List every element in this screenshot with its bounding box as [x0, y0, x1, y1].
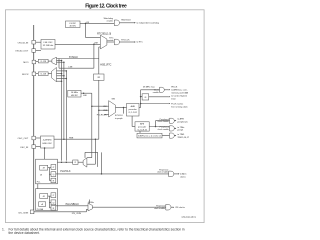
wire HSI corner	[91, 93, 93, 158]
divider /32 box	[94, 74, 105, 80]
mux MCO	[52, 57, 57, 65]
AHB prescaler box	[127, 104, 140, 117]
PLL2 wiring	[48, 195, 51, 197]
bus v4	[65, 71, 67, 161]
node HSE bus	[63, 138, 65, 140]
wire HSE to SW mux	[99, 109, 109, 111]
svg-text:to RTC: to RTC	[137, 41, 144, 44]
svg-text:MCO: MCO	[23, 62, 28, 64]
tap mux2 a	[57, 70, 67, 72]
svg-text:to Cortex System: to Cortex System	[171, 95, 187, 98]
wire x1x2 out	[162, 135, 170, 137]
svg-text:to ADC: to ADC	[180, 173, 187, 176]
svg-text:timer: timer	[171, 98, 176, 101]
mux RTCSEL	[100, 35, 107, 49]
wire HSE riser lower	[98, 80, 100, 139]
wire corner b	[87, 163, 96, 165]
wire PLL1 to PLL2	[37, 184, 39, 189]
svg-text:HSI: HSI	[83, 95, 87, 97]
PLL1 box Q	[51, 172, 56, 177]
arrow I2S	[173, 207, 174, 208]
svg-text:/1,2,4,8,16: /1,2,4,8,16	[137, 130, 147, 132]
tap mux2 d	[57, 78, 67, 80]
svg-text:4-48 MHz: 4-48 MHz	[43, 139, 52, 141]
svg-text:LSE: LSE	[94, 42, 99, 44]
svg-text:prescaler: prescaler	[129, 109, 138, 111]
wire postdiv mux	[78, 161, 83, 163]
svg-text:clocks: clocks	[180, 177, 186, 179]
tap mux2 b	[57, 73, 62, 75]
svg-text:PLLUSBCLK: PLLUSBCLK	[66, 204, 80, 206]
tap mux1 c	[57, 61, 64, 63]
tim multiplier box	[137, 133, 162, 138]
node HSI	[83, 92, 85, 94]
svg-text:SYSCLK: SYSCLK	[69, 57, 79, 59]
bus v3	[63, 62, 65, 139]
wire FCLK	[141, 103, 169, 105]
wire corner d	[101, 152, 103, 174]
node HSE pll	[44, 147, 46, 149]
svg-text:LSE OSC: LSE OSC	[43, 42, 53, 44]
wire HSE	[54, 138, 99, 140]
pin OSC_OUT	[32, 136, 36, 140]
wire RTC mux out	[107, 41, 114, 43]
svg-text:FCLK Cortex: FCLK Cortex	[171, 103, 184, 106]
svg-text:32.768 kHz: 32.768 kHz	[43, 45, 54, 47]
svg-text:48 MHz: 48 MHz	[88, 202, 94, 204]
and gate I2S	[166, 204, 171, 210]
svg-text:LSE: LSE	[69, 66, 74, 68]
wire div8 out	[149, 96, 169, 98]
node SYSCLK	[123, 107, 125, 109]
divider MCO2 box	[38, 72, 48, 76]
APB prescaler box	[135, 122, 149, 131]
svg-text:/1,2../512: /1,2../512	[129, 112, 138, 114]
arrow fHCLK	[169, 89, 170, 90]
bus v2	[61, 60, 63, 160]
svg-text:HSI RC: HSI RC	[71, 95, 79, 97]
wire HCLK to gate	[141, 89, 160, 91]
svg-text:MCO2: MCO2	[22, 74, 29, 76]
wire PCLK out	[149, 126, 169, 128]
node LSI branch	[85, 23, 87, 25]
svg-text:HSE OSC: HSE OSC	[43, 143, 53, 145]
svg-text:clock enable: clock enable	[157, 172, 169, 174]
wire mux hook	[84, 152, 86, 158]
wire SYSCLK out	[116, 107, 127, 109]
tap mux2 c	[57, 75, 64, 77]
figure frame	[6, 10, 205, 223]
mux MCO2	[52, 67, 57, 81]
wire PLLUSBCLK	[56, 205, 88, 207]
pin MCO2	[32, 72, 36, 76]
svg-text:peripherals: peripherals	[177, 120, 187, 123]
svg-text:/1..128: /1..128	[40, 74, 46, 76]
svg-text:HSI: HSI	[103, 106, 107, 108]
and gate TIM1	[170, 133, 175, 138]
wire fHCLK	[164, 89, 168, 91]
pin OSC_IN	[32, 145, 36, 149]
svg-text:fHCLK: fHCLK	[171, 86, 178, 88]
wire PLLRCLK in	[104, 113, 109, 115]
LSI RC oscillator box	[66, 21, 81, 28]
wire SYSCLK down	[123, 108, 125, 114]
PLL2 input box	[40, 194, 48, 199]
wire PLL out upper	[57, 161, 72, 163]
pin OSC32_IN	[32, 40, 36, 44]
svg-text:RTCSEL[1:0]: RTCSEL[1:0]	[97, 33, 111, 36]
mux I2S	[88, 203, 92, 211]
wire IWDGCLK	[120, 22, 135, 24]
divider MCO box	[38, 59, 48, 63]
svg-text:enable: enable	[107, 40, 114, 42]
svg-text:enable: enable	[153, 92, 160, 94]
PLL block 1	[36, 159, 58, 184]
svg-text:PLLRCLK: PLLRCLK	[97, 114, 107, 116]
arrow FCLK	[169, 103, 170, 104]
mux SW	[109, 101, 116, 117]
arrow to RTC	[134, 41, 135, 42]
svg-text:40 kHz: 40 kHz	[69, 25, 75, 27]
svg-text:to periph: to periph	[115, 117, 123, 120]
svg-text:LSI: LSI	[86, 22, 90, 24]
PLL1 input box	[40, 165, 48, 170]
wire I2S_CKIN	[34, 211, 87, 213]
wire corner c	[94, 139, 96, 164]
wire corner a	[87, 157, 92, 159]
svg-text:xN: xN	[40, 174, 43, 176]
wire HSI to SW mux	[92, 105, 109, 107]
svg-text:to APB: to APB	[177, 118, 184, 121]
pin MCO	[32, 60, 36, 64]
arrow systick	[169, 96, 170, 97]
wire I2S out	[92, 206, 165, 208]
arrow TIM	[175, 128, 176, 129]
svg-text:if (APB presc = 1) x1 else x2: if (APB presc = 1) x1 else x2	[138, 135, 161, 138]
wire HSI out	[81, 92, 92, 94]
svg-text:HSE_RTC: HSE_RTC	[100, 63, 111, 66]
svg-text:HSE: HSE	[103, 110, 108, 112]
svg-text:MSv62148V1: MSv62148V1	[182, 216, 197, 219]
svg-text:Figure 12. Clock tree: Figure 12. Clock tree	[85, 3, 127, 9]
svg-text:I2S_CKIN: I2S_CKIN	[72, 213, 82, 215]
mux TIM1 sel	[83, 158, 87, 167]
svg-text:PLLPCLK: PLLPCLK	[60, 171, 71, 173]
and gate RTC	[114, 39, 119, 45]
svg-text:PLL: PLL	[37, 182, 41, 184]
svg-text:PLLSAI: PLLSAI	[37, 208, 44, 211]
and gate ADC	[169, 171, 174, 177]
svg-text:to TIMx: to TIMx	[177, 126, 185, 129]
PLL1 wiring	[48, 167, 51, 169]
tap mux1 b	[57, 59, 62, 61]
svg-text:SW: SW	[112, 99, 115, 101]
chip boundary bus	[33, 25, 35, 214]
svg-text:prescaler: prescaler	[138, 127, 147, 129]
wire RTCCLK	[120, 41, 135, 43]
svg-text:I2S clocks: I2S clocks	[175, 207, 184, 209]
wire mux2-div	[48, 73, 51, 75]
svg-text:OSC32_IN: OSC32_IN	[18, 42, 29, 44]
wire MCO pin-div	[36, 61, 38, 63]
svg-text:16 MHz: 16 MHz	[71, 92, 78, 94]
svg-text:free running clock: free running clock	[171, 105, 188, 108]
node pll v2	[61, 161, 63, 163]
and gate IWDG	[114, 20, 119, 26]
svg-text:the device datasheet.: the device datasheet.	[9, 231, 40, 235]
node HSI to SW	[91, 105, 93, 107]
arrow APB periph	[175, 120, 176, 121]
and gate APB periph	[170, 118, 175, 123]
svg-text:1.: 1.	[2, 228, 5, 232]
and gate TIM	[170, 126, 175, 131]
PLL2 box R	[51, 206, 56, 211]
svg-text:48 MHz max: 48 MHz max	[143, 86, 156, 88]
post divider box	[73, 160, 78, 164]
svg-text:/1..128: /1..128	[40, 61, 46, 63]
wire PLLPCLK	[56, 173, 169, 175]
svg-text:APB: APB	[140, 123, 145, 126]
wire SYSCLK top	[57, 58, 99, 60]
PLL2 box P	[51, 193, 56, 198]
arrow TIM1	[175, 135, 176, 136]
LSE oscillator box	[41, 40, 55, 50]
pin I2S_CKIN	[30, 210, 34, 214]
svg-text:IWDGCLK: IWDGCLK	[121, 19, 131, 21]
HSI RC box	[68, 90, 81, 97]
PLL1 box P	[51, 165, 56, 170]
PLL2 lower box	[39, 202, 46, 207]
svg-text:HSE: HSE	[69, 137, 74, 139]
and gate AHB	[160, 87, 165, 92]
svg-text:OSC_IN: OSC_IN	[20, 147, 29, 149]
wire HSE to PLL	[44, 148, 46, 159]
svg-text:AHB: AHB	[131, 105, 136, 108]
svg-text:enable: enable	[107, 20, 114, 22]
svg-text:OSC_OUT: OSC_OUT	[18, 138, 29, 140]
node HSE to SW mux	[98, 109, 100, 111]
wire HSE_RTC into mux	[99, 46, 101, 48]
svg-text:/2: /2	[75, 162, 77, 164]
HSE oscillator box	[41, 136, 55, 148]
wire PCLK to x1x2	[139, 131, 141, 133]
svg-text:OSC32_OUT: OSC32_OUT	[15, 51, 29, 53]
svg-text:to TIM1: to TIM1	[177, 133, 185, 136]
wire PCLK up	[155, 121, 157, 127]
wire OSC32 pins to LSE osc	[36, 41, 41, 43]
wire to div8	[141, 96, 143, 98]
wire HCLK riser	[140, 90, 142, 108]
svg-text:SYSCLK: SYSCLK	[115, 115, 124, 117]
svg-text:to independent watchdog: to independent watchdog	[137, 22, 159, 25]
node LSE riser	[93, 44, 95, 46]
node PCLK up	[155, 126, 157, 128]
node HCLK div8	[140, 96, 142, 98]
svg-text:periph: periph	[177, 129, 184, 132]
svg-text:clock enable: clock enable	[158, 121, 170, 123]
wire LSI to RTC mux	[85, 23, 87, 37]
arrow ADC	[178, 173, 179, 174]
wire I2S mux stub	[89, 200, 91, 204]
PLL block 2	[36, 189, 58, 211]
wire LSE down	[93, 44, 95, 68]
wire MCO2 pin-div	[36, 73, 38, 75]
wire LSE	[55, 43, 100, 45]
divider /8 box	[142, 94, 149, 100]
svg-text:clock enable: clock enable	[154, 208, 166, 210]
svg-text:TIM15,16,17: TIM15,16,17	[177, 137, 190, 139]
wire mux1-div	[48, 60, 52, 62]
wire HCLK out	[139, 107, 141, 109]
arrow to IWDG	[134, 22, 135, 23]
wire HSE riser upper	[98, 47, 100, 74]
svg-text:to AHB bus, core,: to AHB bus, core,	[171, 88, 188, 91]
wire AHB to APB	[131, 116, 133, 127]
svg-text:clock enable: clock enable	[158, 129, 170, 131]
wire OSC pins to HSE osc	[36, 137, 41, 139]
node pll v4	[66, 161, 68, 163]
PLL2 box Q	[51, 200, 56, 205]
bus v1	[58, 59, 60, 69]
svg-text:memory and DMA: memory and DMA	[171, 91, 188, 94]
svg-text:I2S_CKIN: I2S_CKIN	[18, 212, 28, 214]
PLL1 box R	[51, 178, 56, 183]
tap mux2 e	[57, 80, 62, 82]
wire LSI	[80, 22, 114, 24]
pin OSC32_OUT	[32, 49, 36, 53]
svg-text:RTCCLK: RTCCLK	[121, 39, 130, 41]
